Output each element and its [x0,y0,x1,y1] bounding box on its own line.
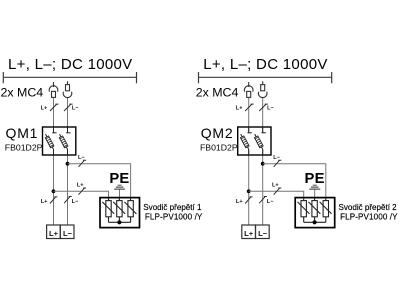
svg-text:L+: L+ [41,106,48,112]
svg-text:PE: PE [109,171,129,187]
svg-text:L+, L–; DC 1000V: L+, L–; DC 1000V [8,56,132,73]
svg-text:L−: L− [267,199,274,205]
connector MC4 male-female pair, L+ pole (2) [244,82,253,97]
svg-text:QM1: QM1 [6,125,39,141]
breaking point mark on L+ wire (2) [245,104,254,111]
breaking point mark on L- branch (1) [79,160,87,167]
svg-text:Svodič přepětí 1: Svodič přepětí 1 [143,203,202,212]
breaking point mark on L+ wire (1) [50,104,59,111]
wire L+ column vertical (1) [53,97,55,225]
terminal box L+ (2) [242,225,256,239]
junction node on L- wire (1) [66,162,70,166]
SPD bottom junction node (2) [313,220,317,224]
section 2 [196,56,398,239]
wire L- branch to SPD (1) [68,164,131,198]
svg-text:L−: L− [258,229,268,238]
junction node on L- wire (2) [261,162,265,166]
connector MC4 male-female pair, L+ pole (1) [49,82,58,97]
svg-text:L+: L+ [272,182,279,188]
wire PE stem to SPD (2) [314,190,316,198]
svg-text:L+, L–; DC 1000V: L+, L–; DC 1000V [203,56,327,73]
svg-text:L−: L− [72,199,79,205]
svg-text:L+: L+ [236,199,243,205]
fuse switch pole L- of QM1 (1) [59,127,70,155]
wire L+ column vertical (2) [248,97,250,225]
SPD bottom junction node (1) [117,220,121,224]
breaking point mark on L- output wire (2) [259,196,267,203]
fuse switch pole L- of QM2 (2) [254,127,265,155]
wire L+ branch to SPD (1) [54,191,109,197]
breaking point mark on L- branch (2) [274,160,282,167]
varistor element L+ in SPD (1) [102,198,114,223]
svg-text:2x MC4: 2x MC4 [196,85,239,99]
svg-text:FLP-PV1000 /Y: FLP-PV1000 /Y [340,212,398,221]
fuse switch pole L+ of QM2 (2) [240,127,251,155]
fuse switch pole L+ of QM1 (1) [45,127,56,155]
svg-text:PE: PE [305,171,325,187]
svg-text:L+: L+ [41,199,48,205]
varistor element PE in SPD (2) [308,198,320,223]
svg-text:L+: L+ [77,182,84,188]
terminal box L- (2) [256,225,270,239]
svg-text:L−: L− [72,106,79,112]
earth symbol (2) [309,185,320,189]
wire L+ branch to SPD (2) [249,191,304,197]
breaking point mark on L+ branch (1) [79,188,87,195]
svg-text:L−: L− [63,229,73,238]
breaking point mark on L- output wire (1) [64,196,72,203]
bus bracket line (1) [3,72,136,83]
terminal box L+ (1) [47,225,61,239]
connector MC4 male-female pair, L- pole (1) [63,81,72,97]
fuse disconnector QM2 enclosure box (2) [238,127,271,155]
svg-text:Svodič přepětí 2: Svodič přepětí 2 [339,203,398,212]
varistor element L- in SPD (2) [320,198,332,223]
breaking point mark on L+ output wire (2) [245,197,252,204]
terminal box L- (1) [60,225,74,239]
svg-text:2x MC4: 2x MC4 [1,85,44,99]
breaking point mark on L- wire (1) [64,104,73,111]
varistor element PE in SPD (1) [113,198,125,223]
bus bracket line (2) [199,72,332,83]
wire PE stem to SPD (1) [119,190,121,198]
wire L- column vertical (2) [262,98,264,225]
svg-text:L+: L+ [236,106,243,112]
svg-text:L−: L− [78,155,85,161]
breaking point mark on L+ output wire (1) [50,197,57,204]
SPD enclosure box (1) [100,198,140,228]
svg-text:L+: L+ [49,229,59,238]
varistor element L- in SPD (1) [124,198,136,223]
svg-text:FB01D2P: FB01D2P [5,143,43,153]
wire L- column vertical (1) [67,98,69,225]
junction node on L+ wire (2) [247,189,251,193]
SPD common bottom wire (2) [304,221,326,223]
SPD enclosure box (2) [295,198,335,228]
svg-text:L+: L+ [244,229,254,238]
svg-text:FLP-PV1000 /Y: FLP-PV1000 /Y [145,212,203,221]
varistor element L+ in SPD (2) [298,198,310,223]
SPD common bottom wire (1) [109,221,131,223]
svg-text:L−: L− [273,155,280,161]
svg-text:FB01D2P: FB01D2P [200,143,238,153]
svg-text:L−: L− [267,106,274,112]
fuse disconnector QM1 enclosure box (1) [43,127,76,155]
connector MC4 male-female pair, L- pole (2) [258,81,267,97]
breaking point mark on L+ branch (2) [274,188,282,195]
section 1 [1,56,203,239]
junction node on L+ wire (1) [52,189,56,193]
svg-text:QM2: QM2 [201,125,234,141]
breaking point mark on L- wire (2) [259,104,268,111]
wire L- branch to SPD (2) [263,164,326,198]
earth symbol (1) [114,185,125,189]
